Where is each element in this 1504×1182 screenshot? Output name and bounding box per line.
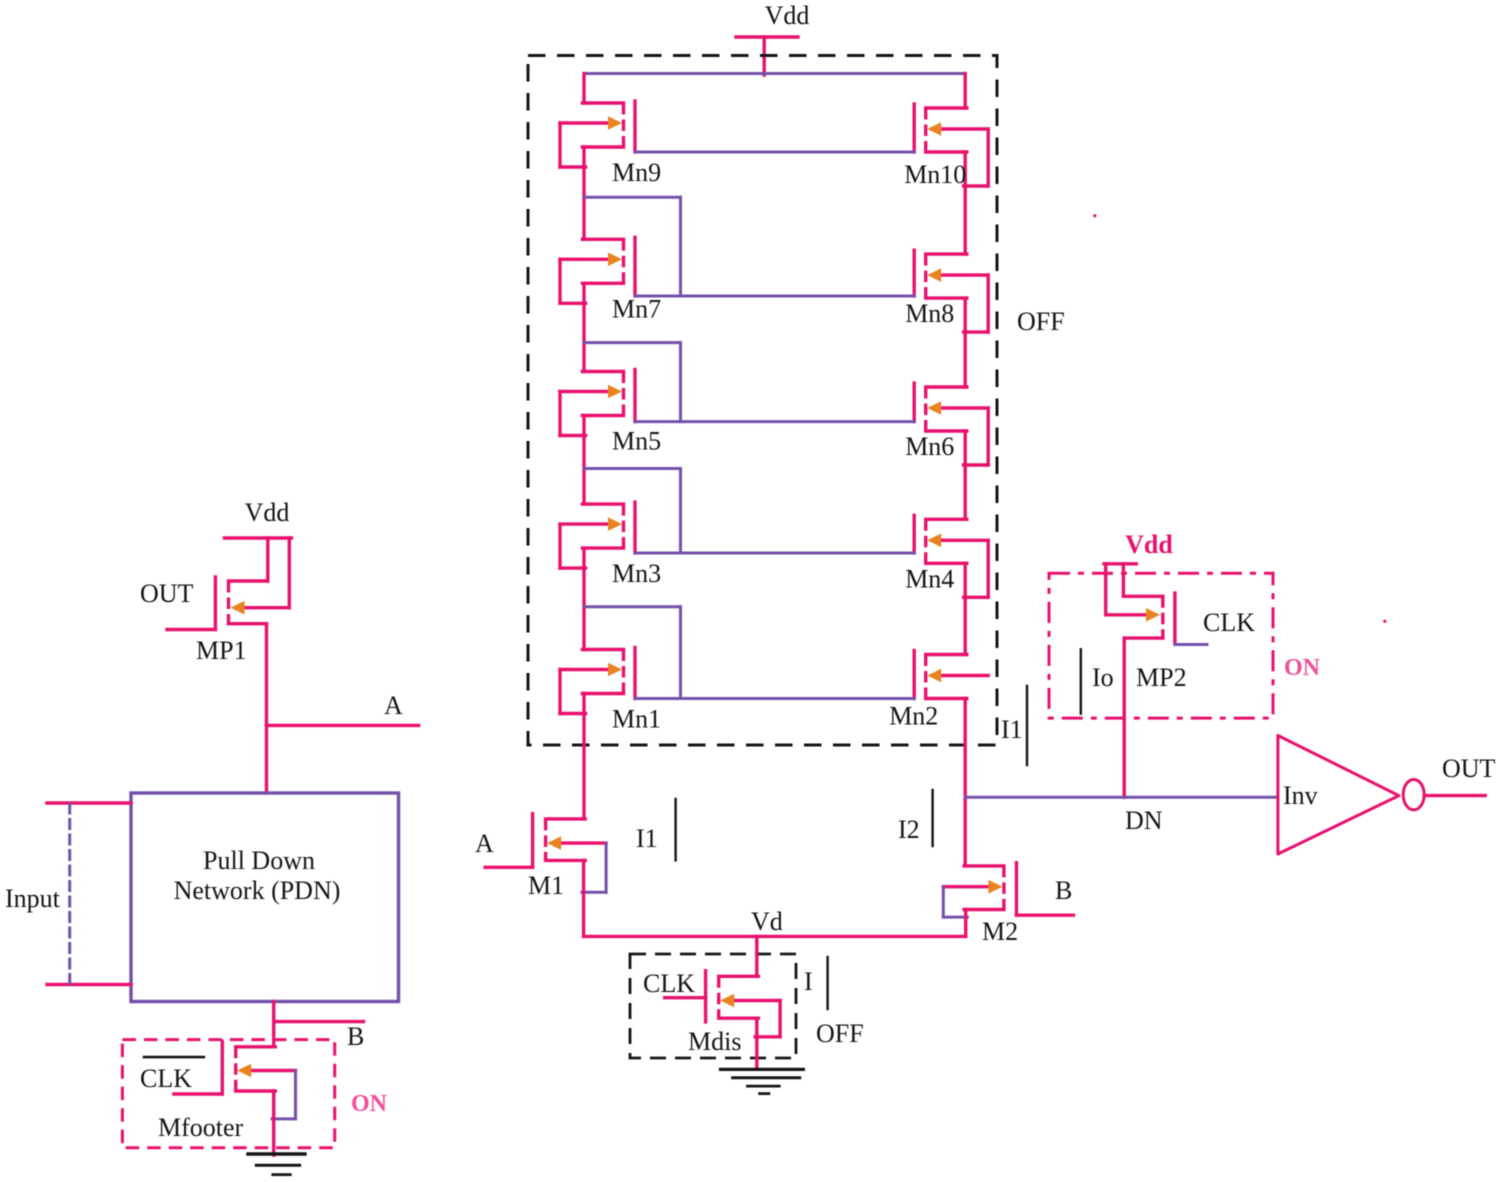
svg-text:Input: Input bbox=[5, 884, 61, 913]
dashed box MP2 (ON) bbox=[1049, 573, 1273, 718]
svg-text:ON: ON bbox=[1284, 655, 1321, 681]
svg-text:Mn7: Mn7 bbox=[612, 294, 661, 323]
power Vdd (MP1) bbox=[225, 498, 292, 538]
node Input wires bbox=[5, 803, 131, 985]
transistor MP1 bbox=[167, 538, 289, 725]
svg-text:CLK: CLK bbox=[1203, 608, 1255, 637]
svg-text:Io: Io bbox=[1092, 663, 1114, 692]
transistor Mfooter bbox=[158, 1041, 296, 1155]
stray mark 1 bbox=[1093, 214, 1096, 217]
svg-text:Mn9: Mn9 bbox=[612, 158, 661, 187]
transistor Mn6 bbox=[905, 383, 988, 465]
transistor Mdis bbox=[665, 936, 780, 1069]
transistor Mn1 bbox=[560, 648, 661, 734]
svg-text:Inv: Inv bbox=[1283, 781, 1318, 810]
svg-text:A: A bbox=[384, 691, 403, 720]
transistor Mn7 bbox=[560, 237, 661, 323]
wire gate row Mn5-Mn6 bbox=[635, 420, 914, 423]
svg-text:OFF: OFF bbox=[816, 1019, 864, 1048]
node B wire bbox=[274, 1022, 365, 1051]
block Pull Down Network (PDN) bbox=[131, 793, 399, 1002]
svg-text:Vdd: Vdd bbox=[245, 498, 290, 527]
transistor Mn2 bbox=[889, 651, 988, 731]
wire link node to gates row 3 bbox=[584, 343, 681, 422]
wire PDN to B / Mfooter bbox=[272, 1002, 275, 1047]
wire link node to gates row 5 bbox=[584, 607, 681, 699]
wire link node to gates row 2 bbox=[584, 197, 681, 296]
current label I1 (M1) bbox=[636, 799, 676, 860]
svg-text:Mn2: Mn2 bbox=[889, 702, 938, 731]
svg-text:Mn3: Mn3 bbox=[612, 559, 661, 588]
transistor Mn9 bbox=[560, 101, 661, 187]
ground (below Mfooter) bbox=[248, 1154, 305, 1175]
svg-text:Mn8: Mn8 bbox=[905, 299, 954, 328]
svg-text:A: A bbox=[475, 829, 494, 858]
wire inverter output bbox=[1424, 794, 1485, 797]
current label I (Mdis) bbox=[804, 957, 828, 1009]
current label I2 bbox=[898, 790, 933, 846]
svg-text:I2: I2 bbox=[898, 815, 920, 844]
svg-text:M1: M1 bbox=[528, 871, 564, 900]
svg-text:Mn5: Mn5 bbox=[612, 427, 661, 456]
current label I1 (right of stack) bbox=[1001, 686, 1027, 765]
svg-text:Mdis: Mdis bbox=[688, 1027, 741, 1056]
svg-text:ON: ON bbox=[351, 1091, 388, 1117]
svg-text:Mn6: Mn6 bbox=[905, 432, 954, 461]
svg-text:OFF: OFF bbox=[1017, 307, 1065, 336]
wire gate row Mn1-Mn2 bbox=[635, 697, 914, 700]
svg-text:Pull Down: Pull Down bbox=[203, 846, 315, 875]
svg-text:DN: DN bbox=[1125, 806, 1163, 835]
transistor Mn4 bbox=[905, 515, 988, 597]
inverter Inv bbox=[1278, 736, 1424, 855]
dashed box Mdis (OFF) bbox=[630, 954, 796, 1058]
stray mark 2 bbox=[1383, 620, 1386, 623]
transistor Mn3 bbox=[560, 502, 661, 588]
transistor Mn5 bbox=[560, 370, 661, 456]
node DN wire bbox=[965, 797, 1278, 835]
svg-text:B: B bbox=[1055, 876, 1072, 905]
transistor M2 bbox=[943, 863, 1073, 946]
dashed box Mfooter (ON) bbox=[122, 1040, 334, 1148]
ground (below Mdis) bbox=[721, 1069, 804, 1093]
svg-text:Vdd: Vdd bbox=[1125, 530, 1173, 559]
wire Vdd rail bbox=[584, 72, 965, 75]
svg-text:Mn1: Mn1 bbox=[612, 705, 661, 734]
svg-text:Network (PDN): Network (PDN) bbox=[174, 876, 341, 905]
power Vdd (top middle) bbox=[736, 1, 809, 75]
svg-text:MP2: MP2 bbox=[1136, 663, 1187, 692]
svg-text:Mfooter: Mfooter bbox=[158, 1113, 244, 1142]
svg-text:Vdd: Vdd bbox=[765, 1, 810, 30]
wire gate row Mn7-Mn8 bbox=[635, 295, 914, 298]
wire gate row Mn9-Mn10 bbox=[635, 151, 914, 154]
svg-text:OUT: OUT bbox=[1442, 754, 1496, 783]
current label Io bbox=[1081, 649, 1114, 713]
wire gate row Mn3-Mn4 bbox=[635, 552, 914, 555]
transistor Mn8 bbox=[905, 250, 988, 332]
svg-text:M2: M2 bbox=[982, 917, 1018, 946]
transistor Mn10 bbox=[904, 104, 988, 189]
wire A to PDN bbox=[265, 725, 268, 793]
node A wire bbox=[267, 691, 419, 725]
power Vdd (MP2) bbox=[1104, 530, 1173, 564]
svg-text:B: B bbox=[347, 1022, 364, 1051]
wire right chain bbox=[964, 74, 967, 866]
svg-text:MP1: MP1 bbox=[196, 636, 247, 665]
transistor MP2 bbox=[1106, 564, 1207, 798]
wire left chain bbox=[582, 74, 585, 819]
transistor M1 bbox=[485, 814, 606, 937]
svg-text:Vd: Vd bbox=[751, 907, 783, 936]
svg-text:OUT: OUT bbox=[140, 579, 194, 608]
dashed box OFF keeper stack bbox=[528, 56, 997, 746]
svg-text:CLK: CLK bbox=[643, 969, 695, 998]
svg-text:I1: I1 bbox=[636, 824, 658, 853]
wire link node to gates row 4 bbox=[584, 469, 681, 554]
node Vd wire bbox=[584, 907, 966, 936]
svg-text:Mn10: Mn10 bbox=[904, 160, 966, 189]
label CLK-bar (Mfooter gate) bbox=[140, 1057, 204, 1093]
svg-text:I1: I1 bbox=[1001, 715, 1023, 744]
svg-text:I: I bbox=[804, 967, 813, 996]
svg-text:Mn4: Mn4 bbox=[905, 564, 954, 593]
svg-text:CLK: CLK bbox=[140, 1064, 192, 1093]
